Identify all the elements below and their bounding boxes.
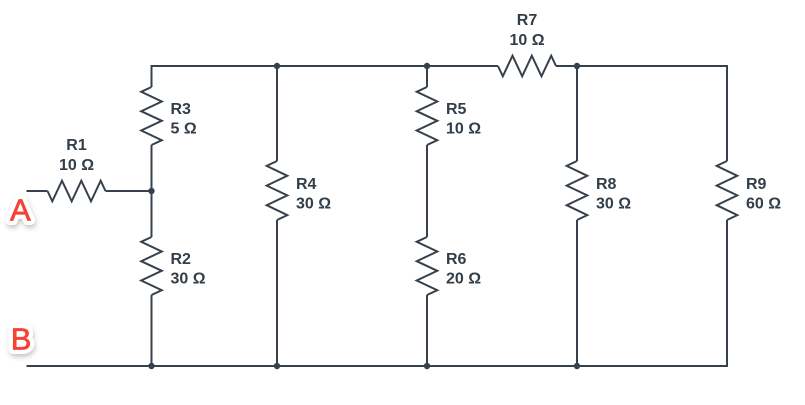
svg-text:60 Ω: 60 Ω xyxy=(746,195,781,212)
junction node bottom x151.5 xyxy=(148,363,154,369)
node A label xyxy=(10,193,31,228)
wire top rail right segment xyxy=(556,66,727,161)
svg-text:R4: R4 xyxy=(296,176,317,193)
resistor R1 xyxy=(48,181,106,202)
junction node top x577 xyxy=(574,63,580,69)
svg-text:10 Ω: 10 Ω xyxy=(446,120,481,137)
wire R4 leads xyxy=(276,66,278,161)
wire R8 leads xyxy=(576,66,578,161)
svg-text:10 Ω: 10 Ω xyxy=(59,157,94,174)
resistor R4 xyxy=(267,161,288,220)
wire R1 to node xyxy=(106,190,152,192)
svg-text:A: A xyxy=(10,193,31,228)
svg-text:R5: R5 xyxy=(446,101,467,118)
svg-text:30 Ω: 30 Ω xyxy=(171,270,206,287)
svg-text:20 Ω: 20 Ω xyxy=(446,270,481,287)
svg-text:10 Ω: 10 Ω xyxy=(509,32,544,49)
wire R6 lead xyxy=(426,295,428,366)
junction node bottom x277 xyxy=(274,363,280,369)
resistor R7 xyxy=(498,56,556,77)
wire R5 leads xyxy=(426,66,428,87)
resistor R3 xyxy=(141,87,162,145)
svg-text:R2: R2 xyxy=(171,251,192,268)
svg-text:R9: R9 xyxy=(746,176,767,193)
svg-text:R8: R8 xyxy=(596,176,617,193)
wire R2 leads xyxy=(151,191,153,237)
resistor R5 xyxy=(417,87,438,145)
junction node top x427 xyxy=(424,63,430,69)
resistor R2 xyxy=(141,237,162,295)
wire R3 lead xyxy=(151,145,153,191)
svg-text:R1: R1 xyxy=(66,137,87,154)
wire top rail left segment xyxy=(152,66,428,87)
junction node A x151.5 xyxy=(148,188,154,194)
wire node A lead xyxy=(27,190,48,192)
resistor R8 xyxy=(567,161,588,220)
resistor R6 xyxy=(417,237,438,295)
svg-text:30 Ω: 30 Ω xyxy=(296,195,331,212)
svg-text:R6: R6 xyxy=(446,251,467,268)
node B label xyxy=(11,322,32,357)
svg-text:R3: R3 xyxy=(171,101,192,118)
svg-text:5 Ω: 5 Ω xyxy=(171,120,197,137)
svg-text:B: B xyxy=(11,322,32,357)
junction node bottom x577 xyxy=(574,363,580,369)
resistor R9 xyxy=(717,161,738,220)
junction node top x277 xyxy=(274,63,280,69)
wire R7 left lead xyxy=(427,65,498,67)
junction node bottom x427 xyxy=(424,363,430,369)
wire bottom rail xyxy=(27,220,728,366)
svg-text:R7: R7 xyxy=(517,12,538,29)
svg-text:30 Ω: 30 Ω xyxy=(596,195,631,212)
